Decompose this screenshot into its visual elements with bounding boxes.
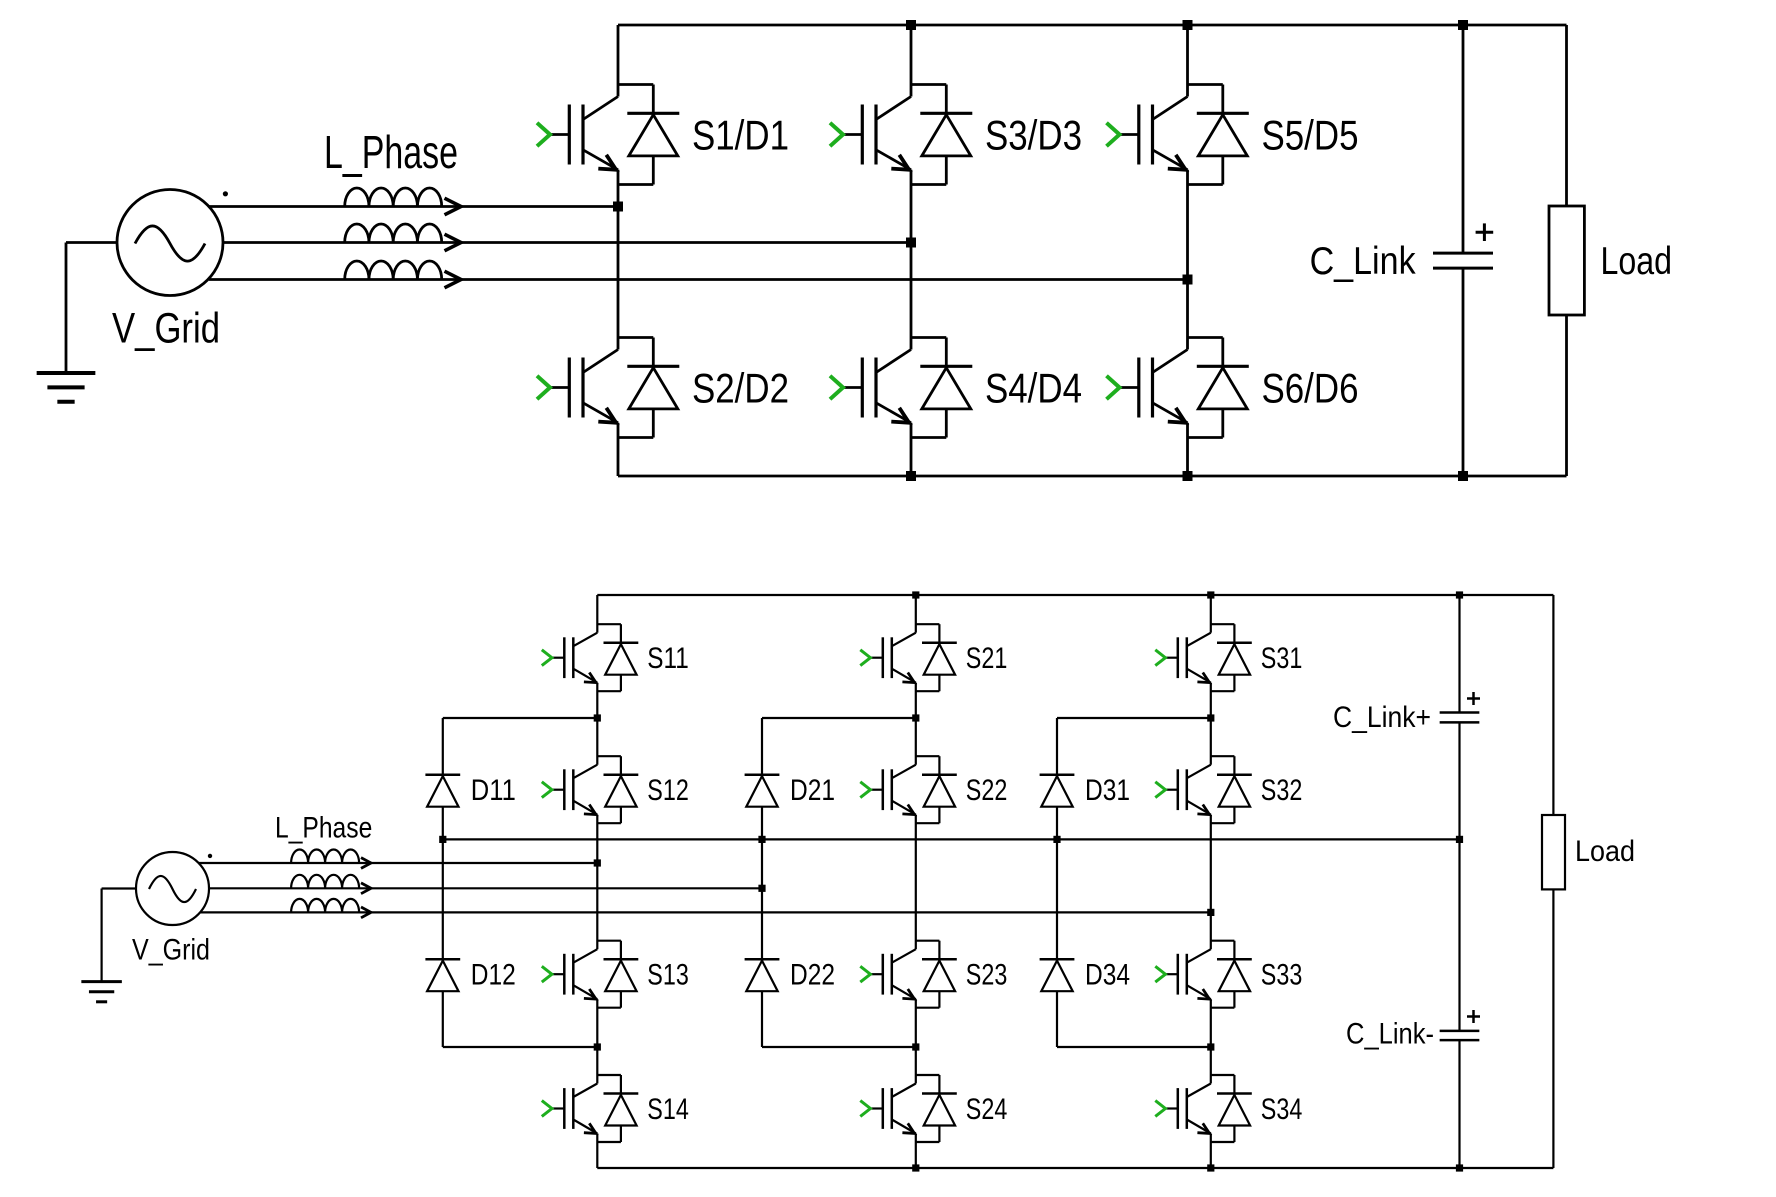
svg-text:S3/D3: S3/D3: [985, 112, 1082, 159]
svg-text:S13: S13: [647, 959, 689, 992]
svg-text:C_Link: C_Link: [1310, 240, 1416, 283]
svg-text:S34: S34: [1261, 1093, 1303, 1126]
svg-text:L_Phase: L_Phase: [324, 126, 458, 178]
svg-text:S32: S32: [1261, 774, 1303, 807]
svg-text:V_Grid: V_Grid: [112, 306, 220, 353]
svg-text:D34: D34: [1085, 959, 1130, 992]
svg-text:C_Link-: C_Link-: [1346, 1018, 1434, 1051]
svg-text:V_Grid: V_Grid: [132, 934, 210, 967]
svg-text:D21: D21: [790, 774, 835, 807]
svg-text:L_Phase: L_Phase: [275, 812, 372, 845]
svg-text:S2/D2: S2/D2: [692, 365, 789, 412]
svg-text:S23: S23: [966, 959, 1008, 992]
svg-text:D31: D31: [1085, 774, 1130, 807]
svg-text:S21: S21: [966, 642, 1008, 675]
svg-text:S1/D1: S1/D1: [692, 112, 789, 159]
svg-text:D22: D22: [790, 959, 835, 992]
svg-text:S4/D4: S4/D4: [985, 365, 1082, 412]
svg-text:S12: S12: [647, 774, 689, 807]
svg-text:D11: D11: [471, 774, 516, 807]
svg-text:S24: S24: [966, 1093, 1008, 1126]
svg-text:D12: D12: [471, 959, 516, 992]
svg-text:S22: S22: [966, 774, 1008, 807]
svg-text:S6/D6: S6/D6: [1262, 365, 1359, 412]
svg-text:Load: Load: [1575, 835, 1635, 868]
svg-text:S14: S14: [647, 1093, 689, 1126]
svg-text:Load: Load: [1601, 240, 1673, 283]
svg-text:S5/D5: S5/D5: [1262, 112, 1359, 159]
svg-text:C_Link+: C_Link+: [1333, 701, 1431, 734]
svg-text:S31: S31: [1261, 642, 1303, 675]
svg-text:S33: S33: [1261, 959, 1303, 992]
svg-text:S11: S11: [647, 642, 689, 675]
